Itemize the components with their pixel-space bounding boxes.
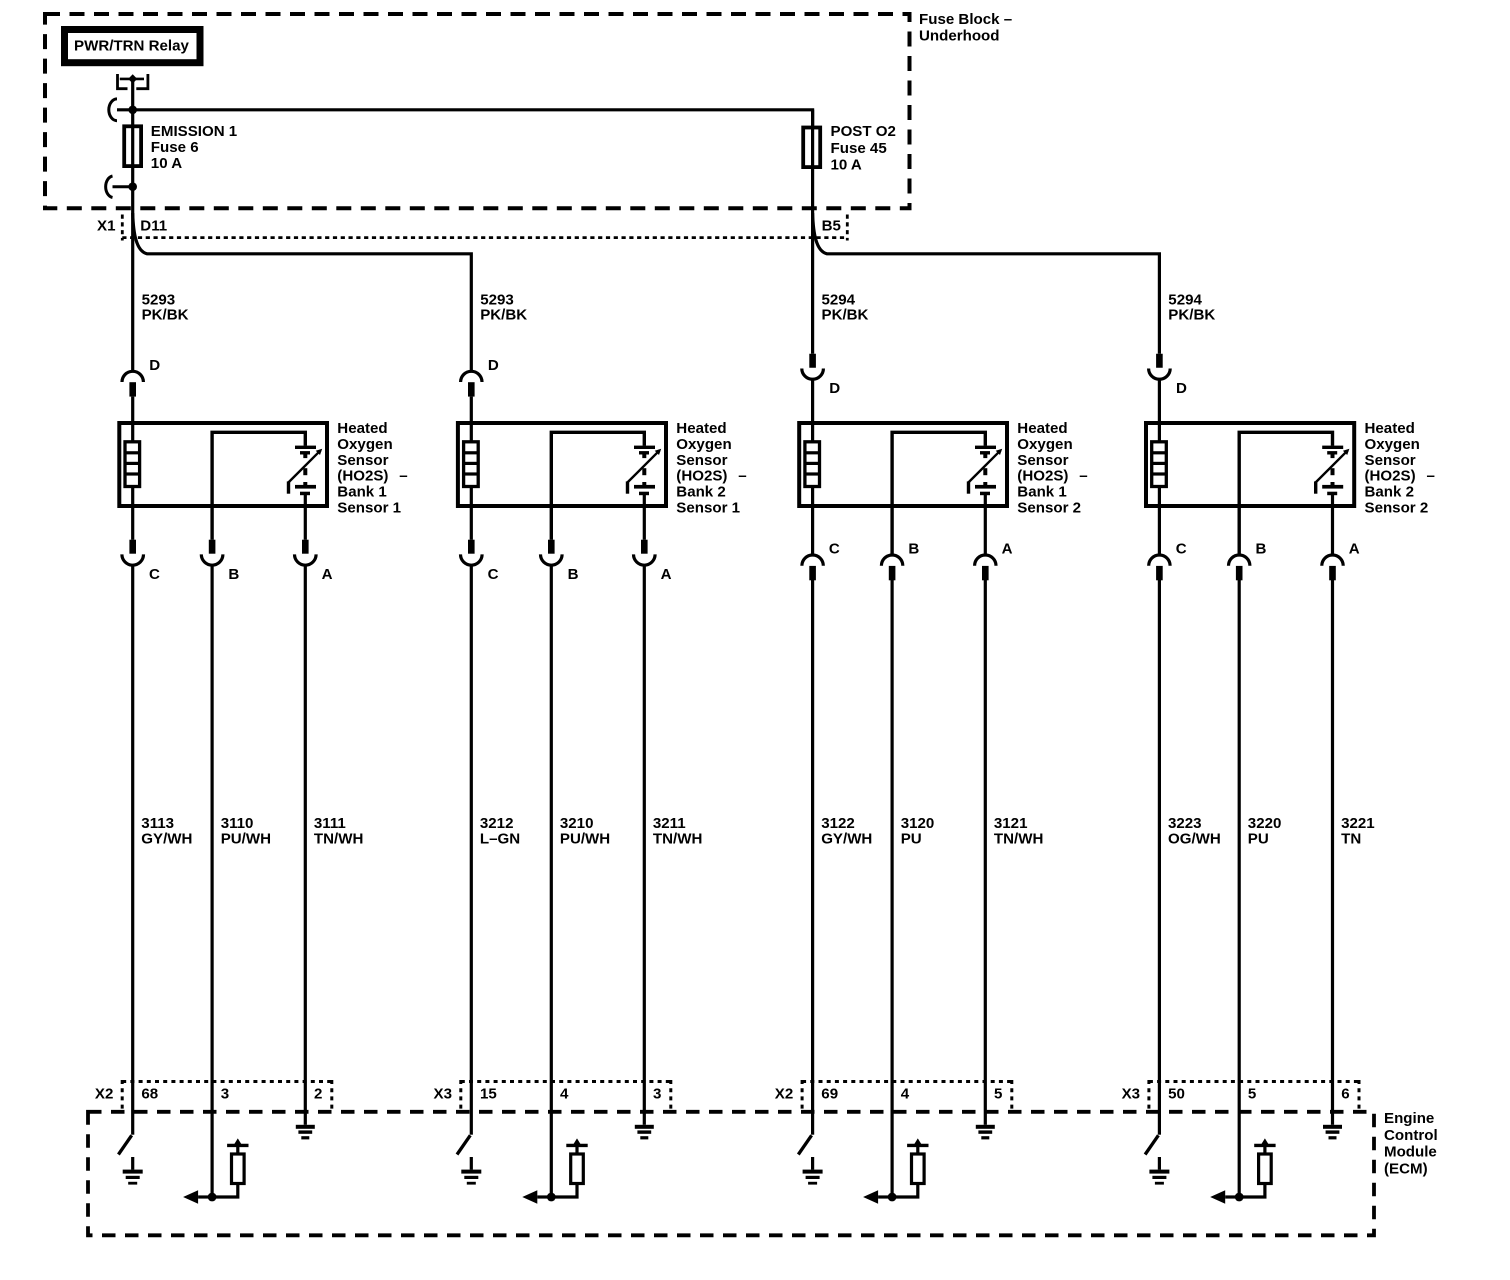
svg-text:PK/BK: PK/BK [142, 306, 189, 323]
svg-text:PU: PU [1248, 831, 1269, 848]
svg-text:B: B [908, 540, 919, 557]
svg-text:OG/WH: OG/WH [1168, 831, 1221, 848]
svg-text:B: B [568, 566, 579, 583]
svg-text:Bank 2: Bank 2 [1365, 484, 1415, 501]
svg-text:3111: 3111 [314, 815, 346, 832]
svg-text:D: D [149, 357, 160, 374]
svg-text:3223: 3223 [1168, 815, 1202, 832]
svg-text:Fuse 6: Fuse 6 [151, 139, 199, 156]
svg-text:(HO2S): (HO2S) [676, 468, 727, 485]
svg-text:Sensor 2: Sensor 2 [1365, 500, 1429, 517]
svg-text:PK/BK: PK/BK [1168, 306, 1215, 323]
svg-text:10 A: 10 A [831, 157, 862, 174]
svg-text:(HO2S): (HO2S) [337, 468, 388, 485]
svg-text:Oxygen: Oxygen [1017, 436, 1072, 453]
svg-text:3113: 3113 [141, 815, 174, 832]
svg-text:(HO2S): (HO2S) [1017, 468, 1068, 485]
svg-text:B: B [228, 566, 239, 583]
svg-text:Sensor: Sensor [337, 452, 388, 469]
svg-text:PWR/TRN Relay: PWR/TRN Relay [74, 38, 190, 55]
svg-text:50: 50 [1168, 1085, 1185, 1102]
svg-text:PK/BK: PK/BK [822, 306, 869, 323]
svg-text:B: B [1256, 540, 1267, 557]
svg-text:PU/WH: PU/WH [221, 831, 271, 848]
svg-text:5: 5 [994, 1085, 1002, 1102]
svg-text:Oxygen: Oxygen [337, 436, 392, 453]
svg-text:3210: 3210 [560, 815, 594, 832]
svg-text:Bank 1: Bank 1 [337, 484, 387, 501]
svg-text:15: 15 [480, 1085, 497, 1102]
svg-text:3212: 3212 [480, 815, 514, 832]
svg-text:Module: Module [1384, 1144, 1437, 1161]
svg-text:6: 6 [1341, 1085, 1349, 1102]
svg-text:TN: TN [1341, 831, 1361, 848]
svg-text:GY/WH: GY/WH [141, 831, 192, 848]
svg-text:PK/BK: PK/BK [480, 306, 527, 323]
svg-text:Heated: Heated [337, 420, 387, 437]
svg-text:B5: B5 [822, 218, 841, 235]
svg-text:Engine: Engine [1384, 1110, 1434, 1127]
svg-text:3122: 3122 [821, 815, 855, 832]
svg-text:EMISSION 1: EMISSION 1 [151, 123, 237, 140]
svg-text:Control: Control [1384, 1127, 1438, 1144]
svg-text:A: A [322, 566, 333, 583]
svg-text:Heated: Heated [1365, 420, 1415, 437]
svg-text:TN/WH: TN/WH [653, 831, 702, 848]
svg-text:L–GN: L–GN [480, 831, 520, 848]
svg-text:X2: X2 [95, 1085, 113, 1102]
svg-text:X3: X3 [434, 1085, 452, 1102]
svg-text:69: 69 [821, 1085, 838, 1102]
svg-text:5: 5 [1248, 1085, 1256, 1102]
svg-text:–: – [738, 468, 746, 485]
svg-text:GY/WH: GY/WH [821, 831, 872, 848]
svg-text:Sensor: Sensor [676, 452, 727, 469]
svg-text:X2: X2 [775, 1085, 793, 1102]
svg-text:A: A [1002, 540, 1013, 557]
svg-text:X3: X3 [1122, 1085, 1140, 1102]
svg-text:C: C [149, 566, 160, 583]
svg-text:3110: 3110 [221, 815, 254, 832]
svg-text:D: D [488, 357, 499, 374]
svg-text:C: C [829, 540, 840, 557]
svg-text:Fuse Block –: Fuse Block – [919, 11, 1012, 28]
svg-text:4: 4 [560, 1085, 569, 1102]
svg-text:D: D [1176, 380, 1187, 397]
svg-text:C: C [488, 566, 499, 583]
svg-text:2: 2 [314, 1085, 322, 1102]
svg-text:3121: 3121 [994, 815, 1028, 832]
svg-text:Bank 1: Bank 1 [1017, 484, 1067, 501]
svg-text:TN/WH: TN/WH [314, 831, 363, 848]
svg-text:PU: PU [901, 831, 922, 848]
svg-text:3221: 3221 [1341, 815, 1375, 832]
svg-text:3211: 3211 [653, 815, 686, 832]
svg-text:(HO2S): (HO2S) [1365, 468, 1416, 485]
svg-text:–: – [1427, 468, 1435, 485]
svg-text:–: – [1079, 468, 1087, 485]
svg-text:Heated: Heated [1017, 420, 1067, 437]
svg-text:3: 3 [221, 1085, 229, 1102]
svg-text:Oxygen: Oxygen [676, 436, 731, 453]
svg-text:10 A: 10 A [151, 155, 182, 172]
svg-text:Sensor 1: Sensor 1 [676, 500, 740, 517]
svg-text:D: D [829, 380, 840, 397]
svg-text:TN/WH: TN/WH [994, 831, 1043, 848]
svg-text:3220: 3220 [1248, 815, 1282, 832]
svg-text:Bank 2: Bank 2 [676, 484, 726, 501]
svg-text:Sensor 1: Sensor 1 [337, 500, 401, 517]
svg-text:C: C [1176, 540, 1187, 557]
svg-text:–: – [399, 468, 407, 485]
svg-text:Heated: Heated [676, 420, 726, 437]
svg-text:A: A [661, 566, 672, 583]
svg-text:(ECM): (ECM) [1384, 1161, 1428, 1178]
svg-text:3: 3 [653, 1085, 661, 1102]
svg-text:D11: D11 [140, 218, 167, 235]
svg-text:Oxygen: Oxygen [1365, 436, 1420, 453]
svg-text:PU/WH: PU/WH [560, 831, 610, 848]
svg-text:Fuse 45: Fuse 45 [831, 140, 887, 157]
svg-text:POST O2: POST O2 [831, 123, 896, 140]
svg-text:A: A [1349, 540, 1360, 557]
svg-text:X1: X1 [97, 218, 115, 235]
svg-text:Sensor 2: Sensor 2 [1017, 500, 1081, 517]
svg-text:4: 4 [901, 1085, 910, 1102]
svg-text:68: 68 [141, 1085, 158, 1102]
svg-text:3120: 3120 [901, 815, 935, 832]
svg-text:Sensor: Sensor [1017, 452, 1068, 469]
svg-text:Sensor: Sensor [1365, 452, 1416, 469]
svg-text:Underhood: Underhood [919, 27, 1000, 44]
